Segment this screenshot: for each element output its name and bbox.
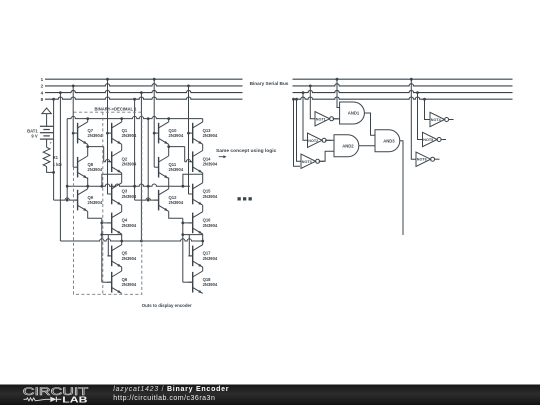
svg-text:NOT1: NOT1: [316, 117, 326, 121]
wire G1 rail drop: [66, 119, 68, 201]
wire G1 row Q9 base: [54, 198, 78, 200]
wire G2 rail drop: [147, 119, 149, 201]
wire G1 tap B from bus 4: [59, 91, 62, 94]
svg-text:LAB: LAB: [62, 395, 87, 405]
transistor Q9: [73, 189, 103, 211]
wire G1 Q9 collector stub: [87, 186, 89, 189]
wire AND3 output: [400, 141, 403, 235]
arrow: [219, 156, 225, 158]
wire G1 chain column: [121, 119, 123, 122]
wire G1 lower base column: [101, 218, 103, 282]
svg-text:2N3904: 2N3904: [88, 167, 103, 172]
svg-text:lazycat1423 / Binary Encoder: lazycat1423 / Binary Encoder: [113, 386, 229, 393]
wire G2 branch Q4 base: [183, 222, 193, 224]
wire G2 branch Q6 base: [183, 281, 193, 283]
dashed box BINARY->DECIMAL: [74, 112, 142, 294]
transistor Q10: [154, 122, 184, 144]
wire G2 branch Q5 base: [183, 234, 203, 236]
wire G2 Q2 emitter jog: [183, 174, 203, 186]
wire AND2 to AND3: [359, 145, 375, 147]
transistor Q7: [73, 122, 103, 144]
supply arrow (battery top terminal): [42, 108, 51, 114]
gate AND3: [375, 130, 400, 152]
svg-text:NOT5: NOT5: [423, 138, 433, 142]
bus line 4: [45, 90, 243, 92]
svg-text:2N3904: 2N3904: [203, 282, 218, 287]
transistor Q5: [107, 245, 137, 267]
bus line 2: [45, 84, 243, 86]
resistor R1 1 kOhm: [43, 147, 50, 166]
wire G2 Q9 collector stub: [168, 186, 170, 189]
wire NOT2 to AND2: [325, 139, 334, 141]
wire G2 tap B from bus 4: [140, 91, 143, 94]
wire G1 left collector column: [87, 119, 89, 122]
gate AND1: [340, 102, 365, 124]
inverter NOT2: [308, 133, 332, 147]
svg-text:2N3904: 2N3904: [203, 194, 218, 199]
svg-text:2N3904: 2N3904: [122, 282, 137, 287]
wire AND1 to AND3: [364, 113, 375, 135]
wire G1 branch Q5 base: [102, 234, 122, 236]
wire NOT1 to AND1: [333, 118, 340, 120]
bus line 1 (Binary Serial Bus bit 1): [45, 78, 243, 80]
svg-text:2: 2: [41, 84, 44, 89]
svg-text:Same concept using logic: Same concept using logic: [216, 148, 277, 154]
transistor Q6: [107, 271, 137, 293]
wire G2 lower base column: [182, 218, 184, 282]
wire NOT3 spare tap: [292, 98, 295, 101]
svg-text:Outs to display encoder: Outs to display encoder: [142, 303, 192, 308]
wire G1 branch Q4 base: [102, 222, 112, 224]
wire R1 to node: [47, 167, 54, 173]
svg-text:Binary Serial Bus: Binary Serial Bus: [250, 81, 289, 86]
transistor Q1: [107, 122, 137, 144]
wire G1 tap A from bus 8: [52, 98, 55, 101]
svg-text:2N3904: 2N3904: [122, 223, 137, 228]
transistor Q4: [107, 212, 137, 234]
transistor Q15: [188, 183, 218, 205]
CircuitLab logo: [23, 386, 89, 405]
wire G2 chain column: [202, 119, 204, 122]
inverter NOT4: [430, 112, 454, 126]
svg-text:AND1: AND1: [348, 111, 360, 116]
wire G2 tap D: [187, 85, 190, 88]
transistor Q16: [188, 212, 218, 234]
node row 241: [60, 239, 202, 241]
inverter NOT5: [423, 132, 447, 146]
wire G1 branch Q6 base: [102, 281, 112, 283]
wire G2 left collector column: [168, 119, 170, 122]
inverter NOT6: [416, 152, 440, 166]
wire battery to R1: [46, 139, 48, 147]
transistor Q13: [188, 122, 218, 144]
transistor Q12: [154, 189, 184, 211]
wire tap to NOT6: [410, 78, 413, 81]
svg-text:2N3904: 2N3904: [169, 167, 184, 172]
svg-text:BINARY->DECIMAL 1: BINARY->DECIMAL 1: [95, 107, 138, 112]
wire G2 tap A from bus 8: [133, 98, 136, 101]
inverter NOT1: [315, 112, 339, 126]
wire G1 Q8 emitter to rail: [87, 178, 89, 187]
wire NOT3 to AND2: [319, 151, 334, 161]
wire G2 Q8 emitter to rail: [168, 178, 170, 187]
transistor Q8: [73, 156, 103, 178]
svg-text:4: 4: [41, 90, 44, 95]
wire G1 tap C: [72, 85, 75, 88]
transistor Q11: [154, 156, 184, 178]
svg-text:NOT6: NOT6: [417, 158, 427, 162]
wire G1 Q2 base jog: [88, 146, 104, 148]
svg-text:2N3904: 2N3904: [203, 223, 218, 228]
wire G2 tap C: [153, 78, 156, 81]
wire tap to NOT5: [416, 91, 419, 94]
wire G2 Q9 emitter jog: [169, 211, 183, 218]
base distribution rail: [67, 184, 190, 186]
transistor Q18: [188, 271, 218, 293]
svg-text:NOT2: NOT2: [308, 139, 318, 143]
battery BAT1 9 V: [27, 126, 53, 145]
svg-text:2N3904: 2N3904: [88, 200, 103, 205]
wire tap to NOT4: [423, 98, 426, 101]
wire G2 row Q9 base: [135, 198, 159, 200]
wire tap to NOT1: [309, 85, 312, 88]
svg-text:2N3904: 2N3904: [203, 133, 218, 138]
svg-text:2N3904: 2N3904: [203, 256, 218, 261]
svg-text:NOT3: NOT3: [302, 160, 312, 164]
transistor Q2: [107, 151, 137, 173]
transistor Q3: [107, 183, 137, 205]
svg-text:8: 8: [41, 97, 44, 102]
wire G1 tap D: [106, 78, 109, 81]
wire G1 Q9 emitter jog: [88, 211, 102, 218]
svg-text:+: +: [50, 140, 53, 145]
transistor Q17: [188, 245, 218, 267]
wire tap to NOT2: [302, 91, 305, 94]
wire tap to NOT3: [295, 98, 298, 101]
svg-text:http://circuitlab.com/c36ra3n: http://circuitlab.com/c36ra3n: [113, 395, 215, 402]
svg-text:2N3904: 2N3904: [88, 133, 103, 138]
gate AND2: [334, 135, 359, 157]
svg-text:2N3904: 2N3904: [203, 162, 218, 167]
svg-text:2N3904: 2N3904: [122, 256, 137, 261]
svg-text:NOT4: NOT4: [431, 118, 442, 122]
wire G1 Q2 emitter jog: [102, 174, 122, 186]
svg-text:1: 1: [41, 77, 44, 82]
svg-text:AND3: AND3: [383, 138, 395, 143]
ellipsis dots: [238, 197, 241, 200]
bus line 8: [45, 97, 243, 99]
svg-text:AND2: AND2: [342, 143, 354, 148]
collector rail: [67, 116, 203, 118]
wire G2 Q2 base jog: [169, 146, 185, 148]
svg-text:9 V: 9 V: [31, 134, 37, 139]
transistor Q14: [188, 151, 218, 173]
wire tap to AND1: [336, 78, 339, 81]
inverter NOT3: [301, 154, 325, 168]
svg-text:2N3904: 2N3904: [169, 133, 184, 138]
svg-text:2N3904: 2N3904: [169, 200, 184, 205]
